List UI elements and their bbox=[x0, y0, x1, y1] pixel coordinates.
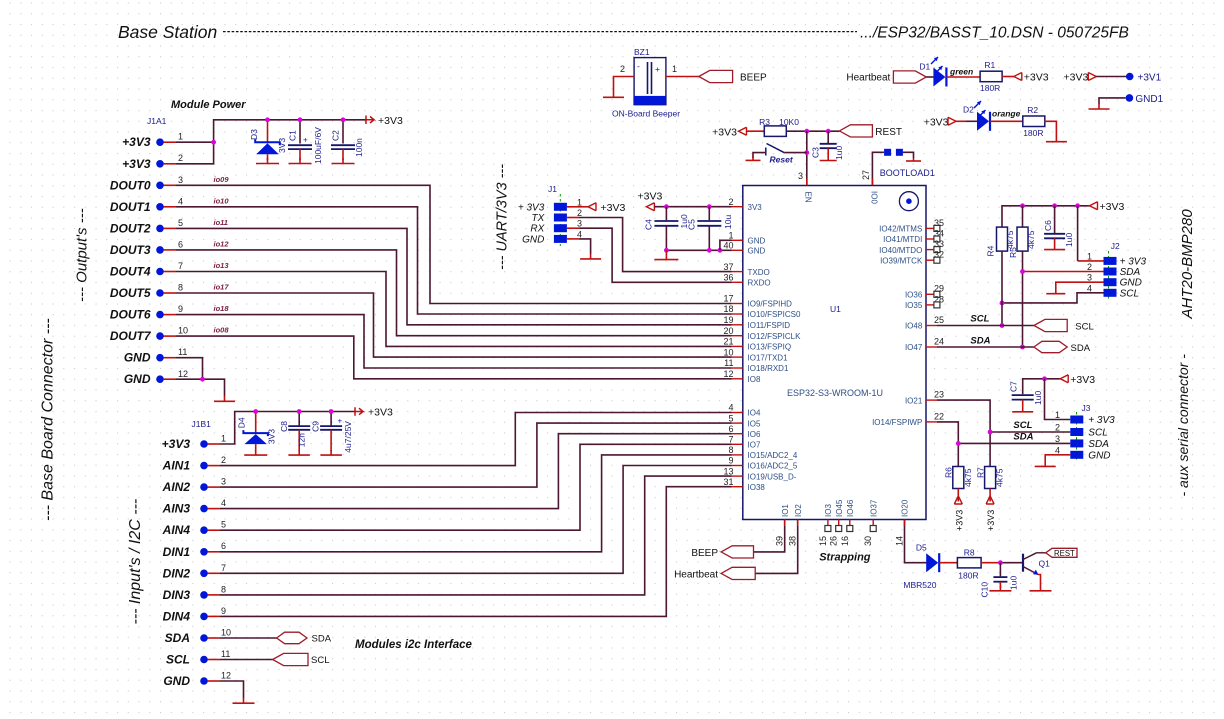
svg-text:Reset: Reset bbox=[770, 155, 794, 165]
svg-text:R2: R2 bbox=[1027, 105, 1038, 115]
svg-text:Modules i2c Interface: Modules i2c Interface bbox=[355, 639, 473, 651]
svg-text:15: 15 bbox=[818, 536, 828, 546]
svg-text:DIN2: DIN2 bbox=[163, 566, 191, 580]
svg-text:AIN4: AIN4 bbox=[162, 523, 191, 537]
svg-text:DOUT3: DOUT3 bbox=[110, 243, 151, 257]
svg-text:DOUT5: DOUT5 bbox=[110, 286, 151, 300]
svg-text:Heartbeat: Heartbeat bbox=[846, 73, 890, 84]
svg-text:R4: R4 bbox=[986, 245, 996, 256]
svg-text:DOUT6: DOUT6 bbox=[110, 308, 151, 322]
svg-text:IO5: IO5 bbox=[748, 419, 761, 428]
svg-text:U1: U1 bbox=[830, 304, 841, 314]
svg-text:C6: C6 bbox=[1043, 220, 1053, 231]
svg-text:IO8: IO8 bbox=[748, 375, 761, 384]
svg-text:12: 12 bbox=[723, 369, 733, 379]
svg-text:1: 1 bbox=[728, 231, 733, 241]
svg-text:100uF/6V: 100uF/6V bbox=[313, 127, 323, 164]
svg-text:7: 7 bbox=[178, 261, 183, 271]
svg-text:DIN3: DIN3 bbox=[163, 588, 191, 602]
svg-text:IO41/MTDI: IO41/MTDI bbox=[883, 235, 922, 244]
svg-text:R7: R7 bbox=[976, 467, 986, 478]
svg-text:+3V3: +3V3 bbox=[122, 135, 151, 149]
svg-text:IO14/FSPIWP: IO14/FSPIWP bbox=[872, 418, 922, 427]
svg-text:IO35: IO35 bbox=[905, 301, 923, 310]
svg-text:RX: RX bbox=[530, 224, 544, 235]
svg-text:40: 40 bbox=[723, 241, 733, 251]
svg-text:+: + bbox=[338, 417, 343, 426]
svg-text:3: 3 bbox=[798, 171, 803, 181]
svg-text:17: 17 bbox=[723, 294, 733, 304]
svg-text:39: 39 bbox=[775, 536, 785, 546]
svg-text:IO19/USB_D-: IO19/USB_D- bbox=[748, 472, 797, 481]
svg-text:AIN3: AIN3 bbox=[162, 502, 191, 516]
svg-text:IO2: IO2 bbox=[794, 504, 803, 517]
svg-text:11: 11 bbox=[221, 649, 230, 659]
svg-text:4: 4 bbox=[221, 498, 226, 508]
svg-text:+3V1: +3V1 bbox=[1138, 73, 1162, 84]
svg-text:2: 2 bbox=[178, 153, 183, 163]
svg-text:+: + bbox=[655, 64, 660, 74]
svg-text:io09: io09 bbox=[214, 175, 230, 184]
svg-text:IO11/FSPID: IO11/FSPID bbox=[748, 321, 791, 330]
svg-text:21: 21 bbox=[723, 337, 733, 347]
svg-text:3: 3 bbox=[221, 477, 226, 487]
svg-text:+3V3: +3V3 bbox=[122, 157, 151, 171]
svg-text:4k75: 4k75 bbox=[1026, 230, 1036, 249]
svg-text:+3V3: +3V3 bbox=[1024, 72, 1049, 84]
svg-text:2: 2 bbox=[728, 197, 733, 207]
svg-text:GND1: GND1 bbox=[1135, 94, 1163, 105]
svg-text:SCL: SCL bbox=[970, 314, 989, 325]
svg-text:J1: J1 bbox=[548, 184, 557, 194]
svg-text:3: 3 bbox=[178, 175, 183, 185]
svg-text:2: 2 bbox=[1087, 262, 1092, 272]
svg-text:5: 5 bbox=[178, 218, 183, 228]
svg-text:1u0: 1u0 bbox=[834, 146, 844, 160]
svg-text:SDA: SDA bbox=[970, 336, 990, 347]
svg-text:26: 26 bbox=[829, 536, 839, 546]
svg-text:GND: GND bbox=[522, 234, 544, 245]
svg-text:Strapping: Strapping bbox=[819, 552, 871, 564]
svg-text:13: 13 bbox=[723, 466, 733, 476]
svg-text:C3: C3 bbox=[811, 147, 821, 158]
svg-text:IO13/FSPIQ: IO13/FSPIQ bbox=[748, 343, 792, 352]
svg-text:+3V3: +3V3 bbox=[986, 510, 996, 531]
svg-text:Q1: Q1 bbox=[1039, 559, 1051, 569]
svg-text:4k75: 4k75 bbox=[1005, 230, 1015, 249]
svg-text:IO42/MTMS: IO42/MTMS bbox=[879, 225, 922, 234]
svg-text:IO1: IO1 bbox=[781, 504, 790, 517]
svg-text:3: 3 bbox=[1087, 273, 1092, 283]
svg-text:22: 22 bbox=[934, 411, 944, 421]
svg-text:C2: C2 bbox=[331, 130, 341, 141]
svg-text:C4: C4 bbox=[644, 219, 654, 230]
svg-text:IO45: IO45 bbox=[835, 499, 844, 517]
svg-text:--- Base Board Connector ---: --- Base Board Connector --- bbox=[40, 318, 57, 521]
svg-text:100n: 100n bbox=[354, 138, 364, 157]
svg-text:IO9/FSPIHD: IO9/FSPIHD bbox=[748, 300, 793, 309]
svg-text:DOUT1: DOUT1 bbox=[110, 200, 151, 214]
svg-text:11: 11 bbox=[178, 347, 187, 357]
svg-text:SDA: SDA bbox=[1013, 432, 1033, 443]
svg-text:AIN2: AIN2 bbox=[162, 480, 191, 494]
svg-text:6: 6 bbox=[178, 239, 183, 249]
svg-text:+3V3: +3V3 bbox=[1064, 72, 1089, 84]
svg-text:io17: io17 bbox=[214, 283, 230, 292]
svg-text:DOUT4: DOUT4 bbox=[110, 265, 151, 279]
svg-text:37: 37 bbox=[723, 262, 733, 272]
svg-text:1u0: 1u0 bbox=[1033, 391, 1043, 405]
svg-text:6: 6 bbox=[728, 424, 733, 434]
svg-text:+3V3: +3V3 bbox=[924, 116, 949, 128]
svg-text:GND: GND bbox=[748, 237, 766, 246]
svg-text:+ 3V3: + 3V3 bbox=[1088, 415, 1115, 426]
svg-text:SCL: SCL bbox=[1075, 322, 1093, 333]
svg-text:31: 31 bbox=[723, 477, 733, 487]
svg-text:io11: io11 bbox=[214, 218, 228, 227]
svg-text:IO4: IO4 bbox=[748, 409, 761, 418]
svg-text:Base Station: Base Station bbox=[118, 22, 217, 42]
svg-text:8: 8 bbox=[728, 445, 733, 455]
svg-text:5: 5 bbox=[728, 413, 733, 423]
svg-text:180R: 180R bbox=[958, 571, 978, 581]
svg-text:BOOTLOAD1: BOOTLOAD1 bbox=[880, 168, 935, 178]
svg-text:D5: D5 bbox=[916, 543, 927, 553]
svg-text:10: 10 bbox=[221, 628, 231, 638]
svg-text:30: 30 bbox=[863, 536, 873, 546]
svg-text:IO47: IO47 bbox=[905, 343, 923, 352]
svg-text:4: 4 bbox=[1055, 445, 1060, 455]
svg-text:27: 27 bbox=[861, 170, 871, 180]
svg-text:IO46: IO46 bbox=[846, 499, 855, 517]
svg-text:3V3: 3V3 bbox=[277, 138, 287, 153]
svg-text:D3: D3 bbox=[249, 129, 259, 140]
svg-text:12: 12 bbox=[221, 671, 231, 681]
svg-text:SCL: SCL bbox=[1013, 420, 1032, 431]
svg-text:SDA: SDA bbox=[1120, 267, 1141, 278]
svg-text:IO20: IO20 bbox=[901, 499, 910, 517]
svg-text:+3V3: +3V3 bbox=[378, 115, 403, 127]
svg-text:2: 2 bbox=[1055, 423, 1060, 433]
svg-text:4: 4 bbox=[1087, 283, 1092, 293]
svg-text:24: 24 bbox=[934, 336, 944, 346]
svg-text:TXDO: TXDO bbox=[748, 268, 770, 277]
svg-text:GND: GND bbox=[163, 674, 190, 688]
svg-text:IO6: IO6 bbox=[748, 430, 761, 439]
svg-text:4u7/25V: 4u7/25V bbox=[343, 421, 353, 453]
svg-text:C5: C5 bbox=[687, 219, 697, 230]
svg-text:IO37: IO37 bbox=[869, 499, 878, 517]
svg-text:EN: EN bbox=[804, 192, 813, 203]
svg-text:- aux serial connector -: - aux serial connector - bbox=[1175, 354, 1191, 497]
svg-text:SDA: SDA bbox=[1088, 439, 1109, 450]
svg-text:+3V3: +3V3 bbox=[1070, 374, 1095, 386]
svg-text:io10: io10 bbox=[214, 196, 230, 205]
svg-text:C9: C9 bbox=[311, 421, 321, 432]
svg-text:2: 2 bbox=[620, 64, 625, 74]
svg-text:+3V3: +3V3 bbox=[638, 191, 663, 203]
svg-text:C7: C7 bbox=[1008, 381, 1018, 392]
svg-text:10: 10 bbox=[178, 326, 188, 336]
svg-text:SDA: SDA bbox=[165, 631, 190, 645]
svg-text:5: 5 bbox=[221, 520, 226, 530]
svg-text:IO39/MTCK: IO39/MTCK bbox=[880, 256, 923, 265]
svg-text:Heartbeat: Heartbeat bbox=[674, 569, 718, 580]
svg-text:4k75: 4k75 bbox=[963, 468, 973, 487]
svg-text:IO21: IO21 bbox=[905, 396, 923, 405]
svg-text:+: + bbox=[303, 136, 308, 145]
svg-text:Module Power: Module Power bbox=[171, 99, 246, 111]
svg-text:38: 38 bbox=[788, 536, 798, 546]
svg-text:GND: GND bbox=[124, 351, 151, 365]
svg-text:.../ESP32/BASST_10.DSN - 05072: .../ESP32/BASST_10.DSN - 050725FB bbox=[860, 25, 1129, 42]
svg-text:SCL: SCL bbox=[166, 653, 190, 667]
svg-text:10u: 10u bbox=[723, 215, 733, 229]
svg-text:J1A1: J1A1 bbox=[147, 116, 167, 126]
svg-text:ON-Board Beeper: ON-Board Beeper bbox=[612, 109, 680, 119]
svg-text:IO16/ADC2_5: IO16/ADC2_5 bbox=[748, 462, 798, 471]
svg-text:7: 7 bbox=[221, 563, 226, 573]
svg-text:6: 6 bbox=[221, 541, 226, 551]
svg-text:IO7: IO7 bbox=[748, 441, 761, 450]
svg-text:+ 3V3: + 3V3 bbox=[518, 202, 545, 213]
svg-text:DIN1: DIN1 bbox=[163, 545, 191, 559]
svg-text:REST: REST bbox=[1054, 549, 1075, 558]
svg-text:SDA: SDA bbox=[1071, 343, 1091, 354]
svg-text:IO36: IO36 bbox=[905, 291, 923, 300]
svg-text:180R: 180R bbox=[1023, 128, 1043, 138]
svg-text:180R: 180R bbox=[980, 83, 1000, 93]
svg-text:DIN4: DIN4 bbox=[163, 609, 191, 623]
svg-text:IO3: IO3 bbox=[824, 504, 833, 517]
svg-text:IO15/ADC2_4: IO15/ADC2_4 bbox=[748, 451, 798, 460]
svg-text:12n: 12n bbox=[296, 433, 306, 447]
svg-text:BZ1: BZ1 bbox=[634, 47, 650, 57]
svg-text:11: 11 bbox=[724, 358, 733, 368]
svg-text:green: green bbox=[949, 67, 973, 77]
svg-text:DOUT0: DOUT0 bbox=[110, 178, 151, 192]
svg-text:SDA: SDA bbox=[312, 634, 332, 645]
svg-text:18: 18 bbox=[723, 304, 733, 314]
svg-text:IO48: IO48 bbox=[905, 322, 923, 331]
svg-text:GND: GND bbox=[1120, 278, 1142, 289]
svg-text:BEEP: BEEP bbox=[691, 548, 718, 559]
svg-text:J3: J3 bbox=[1082, 403, 1091, 413]
svg-text:SCL: SCL bbox=[1120, 288, 1139, 299]
svg-text:IO18/RXD1: IO18/RXD1 bbox=[748, 364, 789, 373]
svg-text:io13: io13 bbox=[214, 261, 230, 270]
svg-text:1u0: 1u0 bbox=[1009, 576, 1019, 590]
svg-text:orange: orange bbox=[992, 109, 1021, 119]
svg-text:DOUT7: DOUT7 bbox=[110, 329, 152, 343]
svg-text:3V3: 3V3 bbox=[267, 429, 277, 444]
svg-text:+3V3: +3V3 bbox=[601, 202, 626, 214]
svg-text:1: 1 bbox=[1087, 251, 1092, 261]
svg-text:GND: GND bbox=[748, 247, 766, 256]
svg-text:IO17/TXD1: IO17/TXD1 bbox=[748, 353, 789, 362]
svg-text:IO12/FSPICLK: IO12/FSPICLK bbox=[748, 332, 802, 341]
svg-text:SCL: SCL bbox=[1088, 428, 1107, 439]
svg-text:io08: io08 bbox=[214, 326, 230, 335]
svg-text:J1B1: J1B1 bbox=[192, 419, 212, 429]
svg-text:19: 19 bbox=[723, 315, 733, 325]
svg-text:DOUT2: DOUT2 bbox=[110, 221, 151, 235]
svg-text:AHT20-BMP280: AHT20-BMP280 bbox=[1179, 209, 1196, 320]
svg-text:16: 16 bbox=[840, 536, 850, 546]
svg-text:1: 1 bbox=[672, 64, 677, 74]
svg-text:1: 1 bbox=[221, 434, 226, 444]
svg-text:+3V3: +3V3 bbox=[1100, 201, 1125, 213]
svg-text:3: 3 bbox=[1055, 434, 1060, 444]
svg-text:ESP32-S3-WROOM-1U: ESP32-S3-WROOM-1U bbox=[787, 388, 883, 398]
svg-text:3: 3 bbox=[577, 219, 582, 229]
svg-text:D1: D1 bbox=[919, 62, 930, 72]
svg-text:GND: GND bbox=[1088, 450, 1110, 461]
svg-text:2: 2 bbox=[221, 455, 226, 465]
svg-text:4: 4 bbox=[178, 196, 183, 206]
svg-text:1: 1 bbox=[1055, 410, 1060, 420]
svg-text:GND: GND bbox=[124, 372, 151, 386]
svg-text:9: 9 bbox=[221, 606, 226, 616]
svg-text:AIN1: AIN1 bbox=[162, 459, 191, 473]
svg-text:R1: R1 bbox=[984, 60, 995, 70]
svg-text:IO40/MTDO: IO40/MTDO bbox=[879, 246, 922, 255]
svg-text:io12: io12 bbox=[214, 239, 230, 248]
svg-text:D4: D4 bbox=[236, 417, 246, 428]
svg-text:IO38: IO38 bbox=[748, 483, 766, 492]
svg-text:14: 14 bbox=[895, 536, 905, 546]
svg-text:--- UART/3V3 ---: --- UART/3V3 --- bbox=[495, 164, 511, 270]
svg-text:R8: R8 bbox=[964, 548, 975, 558]
svg-text:+ 3V3: + 3V3 bbox=[1120, 256, 1147, 267]
svg-text:+3V3: +3V3 bbox=[162, 437, 191, 451]
svg-text:R5: R5 bbox=[1008, 247, 1018, 258]
svg-text:8: 8 bbox=[221, 584, 226, 594]
svg-text:J2: J2 bbox=[1111, 241, 1120, 251]
svg-text:+3V3: +3V3 bbox=[368, 407, 393, 419]
svg-text:REST: REST bbox=[875, 127, 902, 138]
svg-text:+3V3: +3V3 bbox=[712, 127, 737, 139]
svg-text:io18: io18 bbox=[214, 304, 230, 313]
svg-text:-: - bbox=[637, 61, 640, 71]
svg-text:1u0: 1u0 bbox=[1064, 233, 1074, 247]
svg-text:IO10/FSPICS0: IO10/FSPICS0 bbox=[748, 310, 801, 319]
svg-text:4: 4 bbox=[728, 403, 733, 413]
svg-text:R6: R6 bbox=[944, 467, 954, 478]
svg-text:IO0: IO0 bbox=[869, 191, 878, 204]
svg-text:1: 1 bbox=[577, 197, 582, 207]
svg-text:10K0: 10K0 bbox=[779, 117, 799, 127]
svg-text:4k75: 4k75 bbox=[995, 468, 1005, 487]
svg-text:MBR520: MBR520 bbox=[903, 580, 936, 590]
svg-text:8: 8 bbox=[178, 283, 183, 293]
svg-text:C10: C10 bbox=[980, 582, 990, 598]
svg-text:3V3: 3V3 bbox=[748, 203, 763, 212]
svg-text:TX: TX bbox=[532, 213, 545, 224]
svg-text:10: 10 bbox=[723, 347, 733, 357]
svg-text:20: 20 bbox=[723, 326, 733, 336]
svg-text:9: 9 bbox=[178, 304, 183, 314]
svg-text:4: 4 bbox=[577, 229, 582, 239]
svg-text:D2: D2 bbox=[963, 105, 974, 115]
svg-text:2: 2 bbox=[577, 208, 582, 218]
svg-text:--- Output's ---: --- Output's --- bbox=[74, 208, 91, 302]
svg-text:36: 36 bbox=[723, 273, 733, 283]
svg-text:R3: R3 bbox=[759, 117, 770, 127]
svg-text:7: 7 bbox=[728, 435, 733, 445]
svg-text:12: 12 bbox=[178, 369, 188, 379]
svg-text:RXDO: RXDO bbox=[748, 279, 771, 288]
svg-text:C1: C1 bbox=[288, 130, 298, 141]
svg-text:23: 23 bbox=[934, 390, 944, 400]
svg-text:--- Input's / I2C ---: --- Input's / I2C --- bbox=[127, 499, 144, 625]
svg-text:9: 9 bbox=[728, 456, 733, 466]
svg-text:C8: C8 bbox=[279, 421, 289, 432]
svg-text:+3V3: +3V3 bbox=[954, 510, 964, 531]
svg-text:1: 1 bbox=[178, 132, 183, 142]
svg-text:SCL: SCL bbox=[311, 655, 329, 666]
svg-text:BEEP: BEEP bbox=[740, 73, 767, 84]
svg-text:25: 25 bbox=[934, 315, 944, 325]
